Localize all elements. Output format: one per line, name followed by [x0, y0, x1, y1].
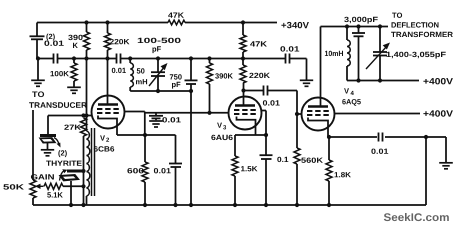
capacitor 0.01 (bus right): [286, 54, 290, 64]
label pF 750: [172, 82, 180, 89]
junction dot rail/27Kline: [81, 203, 85, 207]
wire tank1 down to rail: [190, 91, 192, 205]
resistor 1.8K: [326, 137, 332, 205]
junction dot V4 grid: [295, 112, 299, 116]
junction dot output right: [424, 135, 428, 139]
capacitor 750pF: [185, 59, 198, 92]
junction dot tank2 cap: [356, 24, 360, 28]
junction dot rail/600: [143, 203, 147, 207]
label 100-500: [138, 38, 181, 43]
label 0.01 tank input: [112, 68, 126, 73]
wire V4 cathode int: [308, 118, 328, 138]
wire top +340V rail: [37, 22, 277, 24]
wire V3 cathode line: [235, 135, 266, 156]
node +340V label: [281, 22, 309, 28]
ground thyrite1: [41, 150, 54, 156]
label 50: [137, 68, 145, 73]
resistor 220K-2: [240, 59, 246, 106]
label TRANSDUCER: [29, 102, 87, 108]
wire V4 cathode line: [328, 136, 426, 138]
junction dot bus/100K: [72, 56, 76, 60]
junction dot bus/coil50: [128, 56, 132, 60]
junction dot bus/47K-2: [241, 56, 245, 60]
capacitor 3000pF: [352, 27, 365, 81]
arrow varcap2: [366, 43, 390, 70]
resistor 560K: [294, 114, 300, 205]
junction dot rail/thy2: [69, 203, 73, 207]
wire V2 plate lead: [107, 59, 109, 105]
wire V2 cathode line: [117, 134, 176, 136]
label 0.01 bus right: [280, 46, 299, 51]
label TO defl: [392, 13, 402, 18]
capacitor variable 100-500pF: [151, 59, 165, 92]
label 390K-2: [215, 73, 233, 78]
resistor 220K: [105, 23, 111, 59]
label 0.01 screen: [162, 117, 180, 122]
core line 2: [94, 128, 96, 196]
wire V3 cathode int: [237, 117, 256, 136]
junction dot bus/390K-2: [207, 56, 211, 60]
label 10mH: [325, 51, 343, 56]
junction dot tank2 bot cap: [356, 78, 360, 82]
junction dot tank2 varcap: [378, 24, 382, 28]
ground output: [439, 163, 453, 169]
junction dot bus/varcap: [156, 56, 160, 60]
junction dot tank2 bot varcap: [378, 78, 382, 82]
label +400V plate: [423, 78, 453, 84]
capacitor 0.01 series (left): [54, 54, 58, 64]
varistor THYRITE 2: [60, 169, 85, 205]
label 6AQ5: [342, 99, 361, 106]
wire coupling: [244, 86, 303, 115]
label 27K: [64, 125, 81, 130]
label 560K: [301, 158, 323, 163]
label 0.01 cathode: [154, 168, 171, 173]
potentiometer 50K: [30, 180, 36, 205]
label 750: [170, 74, 182, 79]
varistor THYRITE 1: [40, 136, 61, 150]
wire tank2 top: [321, 26, 389, 28]
junction dot bus/gnd: [36, 56, 40, 60]
tube V3 6AU6: [229, 97, 262, 130]
wire V2 screen: [124, 112, 145, 136]
junction dot rail/220K: [105, 20, 109, 24]
label 220K: [110, 39, 130, 44]
resistor 390K-2: [207, 59, 213, 113]
label (2): [46, 34, 54, 41]
capacitor 0.01 cathode: [169, 135, 182, 205]
resistor 47K-2: [240, 23, 246, 59]
junction dot cath/600: [143, 133, 147, 137]
wire V2 cathode: [98, 116, 117, 136]
junction dot grid/27K: [81, 113, 85, 117]
capacitor 0.01 screen bypass: [149, 113, 163, 127]
junction dot 5.1K/27K line: [81, 184, 85, 188]
junction dot V4 cath: [327, 135, 331, 139]
label 6AU6: [211, 135, 232, 140]
label 100K: [51, 71, 69, 76]
wire to transducer: [32, 110, 34, 180]
junction dot bus/plate V2: [105, 56, 109, 60]
resistor 27K: [81, 118, 87, 205]
junction dot rail/560K: [295, 203, 299, 207]
label 0.1: [277, 157, 288, 162]
label V4: [344, 88, 354, 95]
junction dot V3 plate/coupling: [241, 88, 245, 92]
junction dot rail/1.8K: [327, 203, 331, 207]
resistor 5.1K: [44, 183, 84, 189]
label THYRITE: [46, 161, 82, 166]
label 0.01 output: [371, 149, 388, 154]
junction dot bus/750pF: [189, 56, 193, 60]
label 6CB6: [94, 146, 114, 151]
junction dot tank2 coil: [345, 24, 349, 28]
capacitor C (2) 0.01 input top: [30, 23, 45, 59]
inductor feedback winding: [87, 59, 90, 206]
label (2) thyrite: [58, 150, 66, 157]
label V2: [100, 135, 109, 141]
core line 1: [91, 128, 93, 196]
wire tank2 bottom: [347, 80, 419, 82]
wire grid bus y58: [37, 58, 307, 60]
tube V4 6AQ5: [302, 98, 335, 131]
junction dot tank1 varcap bottom: [156, 89, 160, 93]
resistor 100K: [71, 59, 77, 87]
label 220K-2: [249, 73, 270, 78]
junction dot rail/cap01: [173, 203, 177, 207]
junction dot thyrite2 top: [81, 169, 85, 173]
junction dot rail/tank1: [189, 203, 193, 207]
label 600: [127, 168, 143, 173]
label mH: [136, 79, 147, 84]
junction dot rail/47K-2: [241, 20, 245, 24]
label 390: [68, 35, 82, 40]
wire output down: [425, 137, 427, 205]
arrow varcap1: [149, 63, 168, 86]
junction dot grid/coil: [84, 113, 88, 117]
inductor 50mH: [130, 59, 133, 92]
label 47K-2: [250, 41, 267, 46]
wire tank1 bottom: [130, 90, 191, 92]
label 3,000pF: [344, 17, 378, 24]
label 1.8K: [335, 172, 351, 177]
resistor 600: [142, 135, 148, 205]
wire V4 screen to +400V: [335, 113, 421, 115]
label 47K: [168, 13, 184, 18]
label 1.5K: [241, 166, 257, 171]
junction dot V3 screen/cath: [264, 133, 268, 137]
resistor 1.5K: [232, 156, 238, 205]
ground bus right: [300, 59, 313, 87]
label pF: [153, 46, 161, 53]
label 1,400-3,055pF: [387, 52, 446, 59]
label 0.01: [44, 41, 63, 46]
junction dot rail/1.5K: [233, 203, 237, 207]
inductor 10mH: [347, 27, 350, 81]
ground input left: [31, 59, 45, 87]
label V3: [217, 123, 226, 130]
resistor 390K: [84, 23, 90, 59]
wire bottom rail: [33, 204, 426, 206]
capacitor 0.01 series (tank input): [117, 54, 121, 64]
wire V4 plate lead: [320, 27, 322, 107]
wire output gnd branch: [426, 137, 446, 162]
wire V3 grid line: [146, 112, 229, 114]
label 5.1K: [47, 192, 63, 197]
capacitor 0.1: [260, 135, 273, 205]
watermark SeekIC.com: [384, 213, 449, 221]
junction dot tank1 right bottom: [189, 89, 193, 93]
label GAIN: [31, 174, 54, 179]
wire V3 screen stub: [261, 111, 266, 136]
label +400V screen: [423, 110, 453, 116]
capacitor variable 1400-3055pF: [373, 27, 387, 81]
junction dot bus/390K: [84, 56, 88, 60]
label TRANSFORMER: [391, 32, 453, 37]
label 50K: [3, 184, 24, 189]
label 0.01 coupling: [263, 100, 280, 105]
junction dot rail/390K: [84, 20, 88, 24]
capacitor 0.01 output: [379, 133, 383, 142]
tube V2 6CB6: [92, 96, 125, 129]
label K: [73, 43, 78, 48]
label TO: [32, 91, 44, 97]
label DEFLECTION: [392, 22, 439, 27]
junction dot rail/0.1: [264, 203, 268, 207]
arrow gain wiper: [35, 184, 44, 189]
ground 100K: [67, 87, 81, 93]
resistor R 47K (inline top rail): [168, 20, 185, 25]
wire V2 grid: [48, 116, 93, 135]
junction dot grid/390K-2: [207, 111, 211, 115]
